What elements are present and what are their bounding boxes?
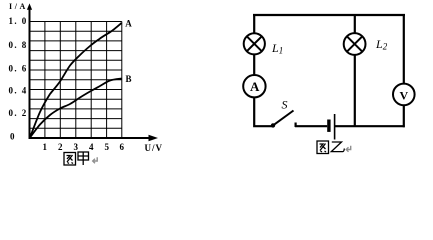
svg-text:U/V: U/V [145,143,164,153]
wire: voltmeter down to bottom-right corner [403,105,405,127]
图 glyph [317,141,329,154]
voltmeter V [393,84,415,106]
switch S lever [273,111,294,126]
wire: ammeter down to bottom-left corner [254,97,272,126]
circuit: top wire [253,14,405,16]
graph grid [30,22,122,139]
x-axis arrowhead [149,135,159,141]
svg-text:6: 6 [120,142,125,152]
caption 图乙 (hand-drawn glyphs) [317,141,344,154]
y-axis (I axis) [29,6,31,138]
svg-text:4: 4 [89,142,94,152]
甲 glyph [78,152,89,160]
caption 图甲 (hand-drawn glyphs) [64,152,89,165]
wire: top-right corner down to voltmeter [403,14,405,84]
wire: top wire down to L2 [354,14,356,34]
battery negative plate (short thick) [327,120,330,132]
lamp L2 [344,33,366,55]
svg-text:0: 0 [10,132,15,142]
svg-text:0. 6: 0. 6 [9,64,28,74]
wire: L1 to ammeter [253,54,255,75]
svg-text:0. 8: 0. 8 [9,40,28,50]
svg-text:0. 4: 0. 4 [9,86,28,96]
svg-text:3: 3 [74,142,79,152]
svg-text:I/A: I/A [9,2,28,11]
wire: battery to bottom-right corner [335,125,405,127]
svg-text:V: V [400,89,409,103]
wire: L2 down to bottom wire (junction) [354,55,356,127]
switch S pivot dot [271,123,275,127]
svg-text:5: 5 [105,142,110,152]
svg-text:2: 2 [58,142,63,152]
wire: top-left down to L1 [253,14,255,34]
return mark after 图甲 [93,157,98,163]
wire: switch to battery [295,125,327,127]
x-axis (U axis) [29,137,152,139]
ammeter A [243,75,265,97]
svg-text:A: A [250,79,260,94]
svg-text:1: 1 [43,142,48,152]
return mark after 图乙 [346,146,350,152]
乙 glyph [331,142,344,152]
svg-text:1. 0: 1. 0 [9,16,28,26]
lamp L1 [244,33,265,54]
svg-text:S: S [282,98,288,112]
curve A [30,23,122,138]
图 glyph [64,153,76,166]
svg-text:0. 2: 0. 2 [9,108,28,118]
curve B [30,79,122,138]
switch fixed contact tick [295,123,297,128]
svg-text:A: A [125,19,132,29]
battery positive plate (long thin) [334,114,336,140]
svg-text:B: B [126,74,132,84]
y-axis arrowhead [27,3,32,9]
